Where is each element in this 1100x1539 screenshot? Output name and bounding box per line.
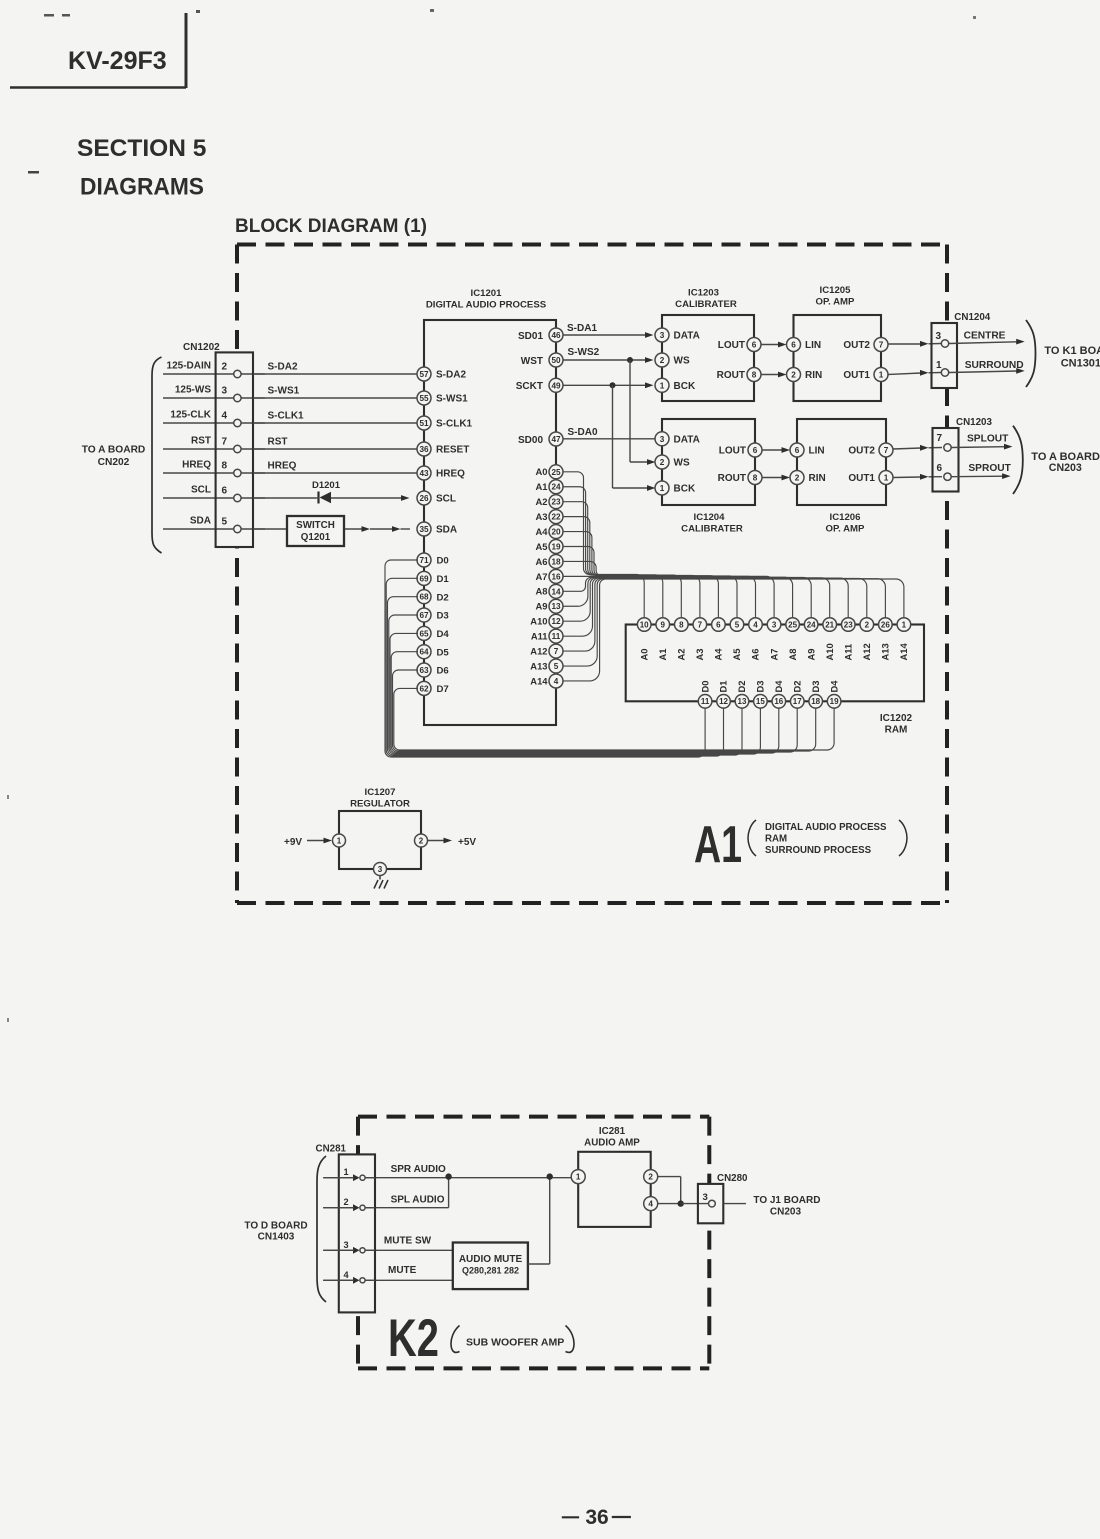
svg-text:DATA: DATA bbox=[674, 331, 700, 342]
IC1201 serial out pins bbox=[516, 328, 563, 446]
connector CN281 label bbox=[316, 1144, 347, 1155]
svg-text:14: 14 bbox=[551, 587, 561, 596]
svg-text:S-DA0: S-DA0 bbox=[568, 427, 598, 438]
wire +9V in bbox=[307, 838, 332, 844]
svg-text:WS: WS bbox=[674, 356, 690, 367]
net label SPR AUDIO bbox=[391, 1164, 446, 1175]
svg-text:DIGITAL AUDIO PROCESS: DIGITAL AUDIO PROCESS bbox=[426, 300, 547, 311]
svg-text:8: 8 bbox=[222, 461, 228, 472]
svg-text:SURROUND: SURROUND bbox=[965, 360, 1024, 371]
IC1202 address pins bbox=[637, 618, 910, 632]
net name SDA bbox=[190, 516, 211, 527]
ground IC1207 bbox=[374, 876, 388, 889]
audio mute Q280-282 bbox=[453, 1243, 528, 1290]
net +5V bbox=[458, 837, 476, 848]
svg-text:D2: D2 bbox=[791, 681, 802, 693]
svg-text:CN1202: CN1202 bbox=[183, 342, 220, 353]
K2 block dashed border bbox=[358, 1117, 709, 1369]
svg-text:1: 1 bbox=[936, 360, 942, 371]
svg-text:15: 15 bbox=[756, 697, 765, 706]
svg-text:A1: A1 bbox=[694, 816, 742, 874]
svg-text:RST: RST bbox=[268, 437, 288, 448]
svg-text:IC1201: IC1201 bbox=[471, 288, 503, 299]
svg-text:2: 2 bbox=[419, 836, 424, 845]
wire HREQ to IC1201 bbox=[163, 472, 417, 474]
svg-text:A2: A2 bbox=[676, 649, 687, 661]
ram IC1202 box bbox=[626, 625, 924, 702]
wire A2 bus bbox=[563, 502, 681, 618]
connector CN280 label bbox=[717, 1173, 748, 1184]
svg-text:1: 1 bbox=[660, 484, 665, 493]
wire A14 bus bbox=[563, 579, 904, 681]
wire OUT1 to CN1203 pin6 bbox=[893, 474, 942, 480]
net label MUTE SW bbox=[384, 1236, 432, 1247]
svg-text:69: 69 bbox=[419, 574, 429, 583]
wire A4 bus bbox=[563, 532, 718, 618]
wire mute to IC281 bbox=[528, 1177, 550, 1264]
svg-text:19: 19 bbox=[830, 697, 839, 706]
op-amp ... IC1201 box bbox=[424, 320, 556, 725]
wire IC281 pin2 to pin4 loop bbox=[658, 1177, 681, 1204]
note TO D BOARD CN1403 bbox=[244, 1221, 307, 1243]
IC1202 label bbox=[880, 713, 913, 736]
svg-text:A4: A4 bbox=[536, 526, 549, 537]
IC1201 data pins D0-D7 bbox=[417, 553, 449, 695]
brace CN281 bbox=[317, 1156, 326, 1302]
svg-text:2: 2 bbox=[344, 1197, 349, 1207]
svg-text:11: 11 bbox=[701, 697, 710, 706]
wire WST to IC1203 WS bbox=[563, 357, 654, 363]
wire OUT2 to CN1204 pin3 bbox=[888, 341, 941, 347]
wire A3 bus bbox=[563, 517, 700, 618]
svg-text:CN280: CN280 bbox=[717, 1173, 748, 1184]
svg-text:SDA: SDA bbox=[436, 525, 457, 536]
svg-text:CN203: CN203 bbox=[1049, 462, 1082, 474]
svg-text:18: 18 bbox=[551, 557, 561, 566]
svg-text:68: 68 bbox=[419, 593, 429, 602]
svg-text:4: 4 bbox=[554, 677, 559, 686]
svg-text:LIN: LIN bbox=[809, 446, 825, 457]
svg-text:7: 7 bbox=[698, 620, 703, 629]
svg-text:2: 2 bbox=[222, 362, 228, 373]
svg-text:D0: D0 bbox=[437, 556, 449, 567]
svg-text:36: 36 bbox=[419, 445, 429, 454]
svg-text:2: 2 bbox=[660, 356, 665, 365]
svg-text:A4: A4 bbox=[713, 648, 724, 661]
connector CN1204 label bbox=[954, 312, 990, 323]
svg-text:62: 62 bbox=[419, 684, 429, 693]
svg-text:13: 13 bbox=[551, 602, 561, 611]
svg-text:20: 20 bbox=[551, 528, 561, 537]
svg-text:D1201: D1201 bbox=[312, 480, 341, 491]
svg-text:A9: A9 bbox=[805, 649, 816, 661]
svg-text:A0: A0 bbox=[536, 466, 548, 477]
svg-text:CN281: CN281 bbox=[316, 1144, 347, 1155]
K2 note bbox=[451, 1326, 574, 1353]
svg-text:3: 3 bbox=[936, 331, 942, 342]
svg-text:OUT2: OUT2 bbox=[848, 446, 875, 457]
svg-text:WST: WST bbox=[521, 356, 543, 367]
net label S-DA1 bbox=[567, 323, 597, 334]
svg-text:4: 4 bbox=[648, 1200, 653, 1209]
wire D1 bus bbox=[386, 578, 723, 756]
svg-text:D7: D7 bbox=[437, 684, 449, 695]
svg-text:49: 49 bbox=[551, 381, 561, 390]
svg-text:3: 3 bbox=[772, 620, 777, 629]
svg-text:D0: D0 bbox=[699, 681, 710, 693]
net name RST bbox=[191, 436, 211, 447]
svg-text:4: 4 bbox=[344, 1270, 350, 1280]
svg-text:IC1203: IC1203 bbox=[688, 288, 719, 299]
svg-text:7: 7 bbox=[879, 340, 884, 349]
svg-text:24: 24 bbox=[551, 483, 561, 492]
svg-text:6: 6 bbox=[716, 620, 721, 629]
IC1202 address pin names bbox=[638, 643, 909, 661]
wire 125-CLK to IC1201 bbox=[163, 422, 417, 424]
svg-text:BCK: BCK bbox=[674, 381, 696, 392]
svg-text:RAM: RAM bbox=[885, 725, 908, 736]
junction mute line bbox=[547, 1173, 553, 1179]
svg-text:5: 5 bbox=[735, 620, 740, 629]
svg-text:A9: A9 bbox=[536, 601, 548, 612]
wire CN280 out bbox=[723, 1203, 746, 1205]
svg-text:7: 7 bbox=[884, 446, 889, 455]
svg-text:D6: D6 bbox=[437, 666, 449, 677]
svg-text:57: 57 bbox=[419, 370, 429, 379]
wire SPL AUDIO bbox=[323, 1177, 448, 1208]
wire RST to IC1201 bbox=[163, 448, 417, 450]
wire SURROUND out bbox=[949, 368, 1025, 374]
svg-text:A8: A8 bbox=[536, 586, 548, 597]
wire D7 bus bbox=[394, 688, 834, 750]
svg-text:SURROUND PROCESS: SURROUND PROCESS bbox=[765, 845, 872, 856]
svg-text:DIGITAL AUDIO PROCESS: DIGITAL AUDIO PROCESS bbox=[765, 822, 887, 833]
svg-text:4: 4 bbox=[222, 411, 228, 422]
IC1201 address pins A0-A14 bbox=[530, 465, 563, 688]
svg-text:CN1403: CN1403 bbox=[258, 1232, 295, 1243]
svg-text:MUTE: MUTE bbox=[388, 1265, 417, 1276]
svg-text:17: 17 bbox=[793, 697, 802, 706]
svg-text:51: 51 bbox=[419, 419, 429, 428]
svg-text:A13: A13 bbox=[530, 660, 547, 671]
svg-text:S-WS1: S-WS1 bbox=[268, 386, 300, 397]
IC1201 label bbox=[426, 288, 547, 311]
wire A1 bus bbox=[563, 487, 663, 618]
svg-text:DATA: DATA bbox=[674, 434, 700, 445]
svg-text:A3: A3 bbox=[536, 511, 548, 522]
svg-text:A1: A1 bbox=[657, 649, 668, 661]
svg-text:125-CLK: 125-CLK bbox=[170, 410, 211, 421]
wire OUT1 to CN1204 pin1 bbox=[888, 370, 941, 376]
svg-text:A10: A10 bbox=[530, 616, 547, 627]
svg-text:CN203: CN203 bbox=[770, 1207, 802, 1218]
svg-text:Q1201: Q1201 bbox=[301, 532, 331, 543]
svg-text:1: 1 bbox=[344, 1167, 349, 1177]
junction SCKT bbox=[610, 382, 616, 388]
svg-text:8: 8 bbox=[752, 370, 757, 379]
svg-text:2: 2 bbox=[648, 1173, 653, 1182]
svg-text:ROUT: ROUT bbox=[717, 370, 745, 381]
svg-text:125-WS: 125-WS bbox=[175, 385, 211, 396]
regulator IC1207 label bbox=[350, 787, 410, 810]
net label S-WS2 bbox=[568, 347, 600, 358]
diagrams heading bbox=[80, 174, 204, 201]
svg-text:CN1301: CN1301 bbox=[1061, 357, 1100, 369]
wire 125-WS to IC1201 bbox=[163, 397, 417, 399]
connector CN280 bbox=[698, 1184, 723, 1223]
net label S-DA2 bbox=[268, 362, 298, 373]
svg-text:SPLOUT: SPLOUT bbox=[967, 434, 1009, 445]
svg-text:65: 65 bbox=[419, 629, 429, 638]
net name HREQ bbox=[182, 460, 211, 471]
svg-text:A11: A11 bbox=[531, 631, 548, 642]
svg-text:43: 43 bbox=[419, 469, 429, 478]
svg-text:21: 21 bbox=[825, 620, 834, 629]
svg-text:SCL: SCL bbox=[191, 485, 211, 496]
connector CN1203 label bbox=[956, 417, 992, 428]
svg-text:TO A BOARD: TO A BOARD bbox=[82, 445, 146, 456]
net label HREQ bbox=[268, 461, 297, 472]
junction SPL into SPR bbox=[445, 1173, 451, 1179]
svg-text:23: 23 bbox=[551, 498, 561, 507]
net label SPL AUDIO bbox=[391, 1195, 445, 1206]
svg-text:2: 2 bbox=[791, 370, 796, 379]
svg-text:A5: A5 bbox=[536, 541, 548, 552]
svg-text:A1: A1 bbox=[536, 481, 548, 492]
wire ROUT to RIN upper bbox=[761, 372, 787, 378]
svg-text:1: 1 bbox=[660, 381, 665, 390]
svg-text:6: 6 bbox=[222, 486, 228, 497]
svg-text:HREQ: HREQ bbox=[268, 461, 297, 472]
svg-text:6: 6 bbox=[795, 446, 800, 455]
svg-text:AUDIO AMP: AUDIO AMP bbox=[584, 1138, 640, 1149]
svg-text:3: 3 bbox=[660, 331, 665, 340]
svg-text:7: 7 bbox=[554, 647, 559, 656]
svg-text:CN202: CN202 bbox=[98, 457, 130, 468]
svg-text:36: 36 bbox=[585, 1506, 608, 1529]
wire D3 bus bbox=[389, 615, 761, 754]
svg-text:125-DAIN: 125-DAIN bbox=[167, 361, 211, 372]
svg-text:RIN: RIN bbox=[809, 473, 826, 484]
svg-text:8: 8 bbox=[679, 620, 684, 629]
svg-text:D4: D4 bbox=[773, 680, 784, 693]
wire 125-DAIN to IC1201 bbox=[163, 373, 417, 375]
wire SPROUT out bbox=[952, 473, 1011, 479]
svg-text:2: 2 bbox=[660, 458, 665, 467]
svg-text:TO K1 BOARD: TO K1 BOARD bbox=[1044, 345, 1100, 357]
svg-text:47: 47 bbox=[551, 435, 561, 444]
svg-text:AUDIO MUTE: AUDIO MUTE bbox=[459, 1254, 523, 1265]
svg-text:A8: A8 bbox=[787, 649, 798, 661]
svg-text:D5: D5 bbox=[437, 647, 450, 658]
net label SPROUT bbox=[968, 463, 1011, 474]
svg-text:5: 5 bbox=[554, 662, 559, 671]
svg-text:SCL: SCL bbox=[436, 494, 456, 505]
svg-text:9: 9 bbox=[661, 620, 666, 629]
wire A9 bus bbox=[563, 578, 811, 619]
svg-text:26: 26 bbox=[419, 494, 429, 503]
wire SPR AUDIO bbox=[323, 1177, 573, 1179]
svg-text:DIAGRAMS: DIAGRAMS bbox=[80, 174, 204, 201]
calibrater IC1203 box bbox=[662, 315, 754, 401]
svg-text:16: 16 bbox=[551, 572, 561, 581]
wire +5V out bbox=[428, 838, 453, 844]
IC1204 label bbox=[681, 512, 743, 535]
net label SURROUND bbox=[965, 360, 1024, 371]
svg-text:D2: D2 bbox=[736, 681, 747, 693]
IC1205 label bbox=[816, 285, 856, 308]
A1 note parens bbox=[748, 820, 907, 856]
svg-text:S-CLK1: S-CLK1 bbox=[436, 419, 473, 430]
svg-text:RIN: RIN bbox=[805, 370, 822, 381]
wire SCL to IC1201 bbox=[163, 495, 410, 501]
block designator A1 bbox=[694, 816, 742, 874]
svg-text:OUT1: OUT1 bbox=[843, 370, 870, 381]
svg-text:SPROUT: SPROUT bbox=[968, 463, 1011, 474]
wire SDA to IC1201 bbox=[163, 526, 410, 532]
svg-text:+9V: +9V bbox=[284, 837, 302, 848]
svg-text:S-WS1: S-WS1 bbox=[436, 394, 468, 405]
svg-text:S-CLK1: S-CLK1 bbox=[268, 411, 305, 422]
IC281 pins bbox=[571, 1170, 658, 1211]
svg-text:REGULATOR: REGULATOR bbox=[350, 799, 410, 810]
IC1207 pins bbox=[333, 834, 428, 876]
junction S-WS2 bbox=[627, 357, 633, 363]
audio amp IC281 label bbox=[584, 1126, 640, 1149]
note TO J1 BOARD CN203 bbox=[753, 1195, 820, 1218]
svg-text:D4: D4 bbox=[437, 629, 450, 640]
A1 block dashed border bbox=[237, 245, 948, 904]
svg-text:A11: A11 bbox=[842, 644, 853, 661]
svg-text:3: 3 bbox=[344, 1240, 349, 1250]
svg-text:S-WS2: S-WS2 bbox=[568, 347, 600, 358]
op-amp IC1206 box bbox=[797, 419, 886, 505]
svg-text:SECTION 5: SECTION 5 bbox=[77, 135, 206, 162]
svg-text:CN1203: CN1203 bbox=[956, 417, 992, 428]
svg-text:63: 63 bbox=[419, 666, 429, 675]
svg-text:16: 16 bbox=[774, 697, 783, 706]
wire SCKT drop to IC1204 BCK bbox=[613, 385, 656, 491]
svg-text:A14: A14 bbox=[530, 675, 548, 686]
regulator IC1207 box bbox=[339, 811, 421, 869]
svg-text:A3: A3 bbox=[694, 649, 705, 661]
calibrater IC1204 box bbox=[662, 419, 755, 505]
svg-text:1: 1 bbox=[576, 1173, 581, 1182]
wire D6 bus bbox=[393, 670, 816, 751]
svg-text:1: 1 bbox=[884, 473, 889, 482]
left brace CN1202 bbox=[152, 357, 162, 553]
scan specks bbox=[7, 9, 976, 1022]
wire SCKT to IC1203 BCK bbox=[563, 382, 654, 388]
wire A12 bus bbox=[563, 578, 867, 651]
svg-text:IC1206: IC1206 bbox=[830, 512, 861, 523]
svg-text:2: 2 bbox=[865, 620, 870, 629]
page title box line bbox=[10, 13, 186, 88]
svg-text:+5V: +5V bbox=[458, 837, 476, 848]
wire OUT2 to CN1203 pin7 bbox=[893, 445, 942, 451]
svg-text:3: 3 bbox=[660, 435, 665, 444]
wire A7 bus bbox=[563, 576, 774, 618]
svg-text:RST: RST bbox=[191, 436, 211, 447]
net label S-CLK1 bbox=[268, 411, 305, 422]
svg-text:A6: A6 bbox=[536, 556, 548, 567]
svg-text:D1: D1 bbox=[437, 574, 450, 585]
svg-text:RAM: RAM bbox=[765, 834, 787, 845]
svg-text:6: 6 bbox=[791, 340, 796, 349]
connector CN281 bbox=[323, 1154, 375, 1312]
wire LOUT to LIN lower bbox=[762, 447, 790, 453]
svg-text:A0: A0 bbox=[638, 649, 649, 661]
svg-text:5: 5 bbox=[222, 517, 228, 528]
block diagram title bbox=[235, 216, 427, 237]
net +9V bbox=[284, 837, 302, 848]
wire SD01 to IC1203 DATA bbox=[563, 332, 654, 338]
connector box masks bbox=[216, 323, 959, 547]
A1 note text bbox=[765, 822, 887, 856]
IC1203 pins bbox=[655, 328, 761, 392]
svg-text:WS: WS bbox=[674, 458, 690, 469]
wire LOUT to LIN upper bbox=[761, 342, 787, 348]
svg-text:71: 71 bbox=[419, 556, 429, 565]
svg-text:8: 8 bbox=[753, 473, 758, 482]
svg-text:CN1204: CN1204 bbox=[954, 312, 990, 323]
svg-text:OUT2: OUT2 bbox=[843, 340, 870, 351]
note TO K1 BOARD CN1301 bbox=[1044, 345, 1100, 369]
net name 125-WS bbox=[175, 385, 211, 396]
svg-text:HREQ: HREQ bbox=[436, 469, 465, 480]
K2 connector masks bbox=[339, 1154, 724, 1312]
svg-text:SUB WOOFER AMP: SUB WOOFER AMP bbox=[466, 1337, 564, 1349]
wire A5 bus bbox=[563, 547, 737, 619]
svg-text:A6: A6 bbox=[750, 649, 761, 661]
svg-text:D4: D4 bbox=[828, 680, 839, 693]
svg-text:SD00: SD00 bbox=[518, 435, 543, 446]
wire SD00 to IC1204 DATA bbox=[563, 438, 655, 440]
svg-text:A12: A12 bbox=[530, 645, 547, 656]
svg-text:IC1205: IC1205 bbox=[820, 285, 852, 296]
svg-text:SPR AUDIO: SPR AUDIO bbox=[391, 1164, 446, 1175]
wire A0 bus bbox=[563, 472, 644, 618]
svg-text:A7: A7 bbox=[768, 649, 779, 661]
wire D0 bus bbox=[385, 560, 705, 757]
svg-text:IC1204: IC1204 bbox=[694, 512, 726, 523]
net label SPLOUT bbox=[967, 434, 1009, 445]
svg-text:IC1202: IC1202 bbox=[880, 713, 913, 724]
svg-text:12: 12 bbox=[551, 617, 561, 626]
svg-text:D2: D2 bbox=[437, 592, 449, 603]
svg-text:S-DA2: S-DA2 bbox=[268, 362, 298, 373]
svg-text:KV-29F3: KV-29F3 bbox=[68, 47, 167, 75]
svg-text:OP. AMP: OP. AMP bbox=[826, 524, 866, 535]
junction IC281 output bbox=[678, 1200, 684, 1206]
wire D4 bus bbox=[390, 633, 779, 753]
svg-text:Q280,281 282: Q280,281 282 bbox=[462, 1266, 519, 1276]
svg-text:CALIBRATER: CALIBRATER bbox=[675, 299, 737, 310]
svg-text:12: 12 bbox=[719, 697, 728, 706]
wire MUTE bbox=[323, 1279, 453, 1281]
net label CENTRE bbox=[964, 331, 1006, 342]
svg-text:A13: A13 bbox=[880, 643, 891, 660]
svg-text:18: 18 bbox=[811, 697, 820, 706]
svg-text:10: 10 bbox=[640, 620, 649, 629]
svg-text:A10: A10 bbox=[824, 643, 835, 660]
svg-text:A5: A5 bbox=[731, 649, 742, 661]
svg-text:6: 6 bbox=[753, 446, 758, 455]
svg-text:1: 1 bbox=[879, 370, 884, 379]
IC1204 pins bbox=[655, 432, 762, 495]
wire A11 bus bbox=[563, 578, 848, 636]
diode D1201 bbox=[312, 480, 341, 504]
